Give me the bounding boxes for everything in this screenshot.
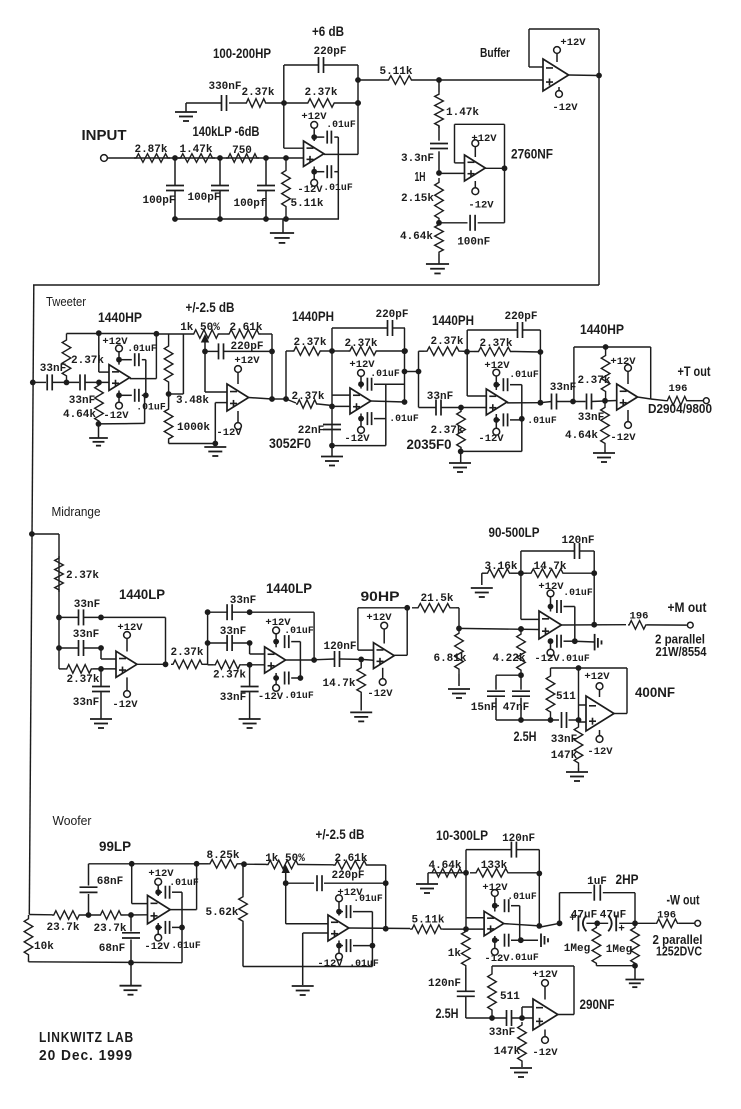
svg-text:2.37k: 2.37k	[291, 391, 324, 403]
svg-text:5.11k: 5.11k	[290, 198, 323, 210]
svg-text:100-200HP: 100-200HP	[213, 46, 271, 61]
svg-text:Tweeter: Tweeter	[46, 295, 86, 309]
svg-text:33nF: 33nF	[73, 629, 99, 641]
svg-text:220pF: 220pF	[230, 341, 263, 353]
svg-text:-12V: -12V	[216, 427, 242, 439]
svg-text:.01uF: .01uF	[507, 891, 537, 902]
svg-text:147k: 147k	[551, 750, 578, 762]
svg-text:90HP: 90HP	[361, 588, 400, 604]
svg-text:22nF: 22nF	[298, 425, 324, 437]
svg-text:4.64k: 4.64k	[428, 860, 461, 872]
svg-text:1252DVC: 1252DVC	[656, 945, 702, 959]
svg-text:-12V: -12V	[297, 184, 323, 196]
svg-text:10-300LP: 10-300LP	[436, 828, 488, 843]
svg-text:2.37k: 2.37k	[170, 647, 203, 659]
svg-text:2.37k: 2.37k	[293, 337, 326, 349]
svg-text:147k: 147k	[494, 1046, 521, 1058]
svg-text:.01uF: .01uF	[284, 690, 314, 701]
svg-text:3.16k: 3.16k	[484, 561, 517, 573]
svg-text:-12V: -12V	[552, 102, 578, 114]
svg-text:100pf: 100pf	[233, 198, 266, 210]
svg-text:2.37k: 2.37k	[577, 375, 610, 387]
svg-text:+T out: +T out	[678, 364, 711, 379]
svg-text:33nF: 33nF	[74, 599, 100, 611]
svg-text:-12V: -12V	[468, 200, 494, 212]
svg-text:14.7k: 14.7k	[322, 678, 355, 690]
svg-text:1440HP: 1440HP	[98, 309, 142, 325]
svg-text:LINKWITZ LAB: LINKWITZ LAB	[39, 1030, 134, 1046]
svg-text:20 Dec. 1999: 20 Dec. 1999	[39, 1048, 133, 1064]
svg-text:INPUT: INPUT	[82, 127, 127, 144]
svg-text:511: 511	[556, 691, 576, 703]
svg-text:.01uF: .01uF	[169, 877, 199, 888]
svg-text:2HP: 2HP	[616, 872, 639, 887]
svg-text:1k 50%: 1k 50%	[180, 322, 220, 334]
svg-text:+12V: +12V	[532, 969, 558, 981]
svg-text:+/-2.5 dB: +/-2.5 dB	[186, 300, 235, 315]
svg-text:Buffer: Buffer	[480, 45, 510, 60]
svg-text:.01uF: .01uF	[509, 952, 539, 963]
svg-text:33nF: 33nF	[489, 1027, 515, 1039]
svg-text:3.48k: 3.48k	[176, 395, 209, 407]
svg-text:1.47k: 1.47k	[446, 107, 479, 119]
svg-text:2.37k: 2.37k	[430, 336, 463, 348]
svg-text:.01uF: .01uF	[284, 625, 314, 636]
svg-text:2.37k: 2.37k	[66, 674, 99, 686]
svg-text:.01uF: .01uF	[171, 940, 201, 951]
svg-text:+: +	[618, 924, 625, 936]
svg-text:100pF: 100pF	[142, 195, 175, 207]
svg-text:.01uF: .01uF	[323, 182, 353, 193]
svg-text:5.11k: 5.11k	[411, 915, 444, 927]
svg-text:-12V: -12V	[144, 941, 170, 953]
svg-text:33nF: 33nF	[69, 395, 95, 407]
svg-text:1H: 1H	[415, 169, 426, 184]
svg-text:+12V: +12V	[102, 336, 128, 348]
svg-text:33nF: 33nF	[427, 391, 453, 403]
svg-text:33nF: 33nF	[550, 382, 576, 394]
svg-text:+12V: +12V	[482, 882, 508, 894]
svg-text:196: 196	[630, 611, 649, 623]
svg-text:2.37k: 2.37k	[344, 338, 377, 350]
svg-text:+6 dB: +6 dB	[312, 23, 344, 39]
svg-text:-12V: -12V	[587, 746, 613, 758]
svg-text:120nF: 120nF	[561, 535, 594, 547]
svg-text:220pF: 220pF	[504, 311, 537, 323]
svg-text:1k: 1k	[448, 948, 462, 960]
svg-text:100pF: 100pF	[187, 192, 220, 204]
svg-text:33nF: 33nF	[230, 595, 256, 607]
svg-text:1.47k: 1.47k	[179, 144, 212, 156]
svg-text:68nF: 68nF	[97, 876, 123, 888]
svg-text:23.7k: 23.7k	[46, 922, 79, 934]
svg-text:-12V: -12V	[103, 410, 129, 422]
svg-text:120nF: 120nF	[323, 641, 356, 653]
svg-text:-12V: -12V	[610, 432, 636, 444]
svg-text:-12V: -12V	[532, 1047, 558, 1059]
svg-text:5.62k: 5.62k	[205, 907, 238, 919]
svg-text:-12V: -12V	[534, 653, 560, 665]
svg-text:+M out: +M out	[668, 600, 707, 615]
svg-text:750: 750	[232, 145, 252, 157]
svg-text:99LP: 99LP	[99, 838, 131, 854]
svg-text:.01uF: .01uF	[353, 893, 383, 904]
svg-text:1uF: 1uF	[587, 876, 607, 888]
svg-text:3052F0: 3052F0	[269, 436, 311, 451]
svg-text:400NF: 400NF	[635, 685, 675, 700]
svg-text:23.7k: 23.7k	[93, 923, 126, 935]
svg-text:.01uF: .01uF	[389, 413, 419, 424]
svg-text:10k: 10k	[34, 941, 54, 953]
svg-text:1Meg: 1Meg	[564, 943, 590, 955]
svg-text:-12V: -12V	[112, 699, 138, 711]
svg-text:2.5H: 2.5H	[436, 1005, 459, 1021]
svg-text:-12V: -12V	[367, 688, 393, 700]
svg-text:+12V: +12V	[610, 356, 636, 368]
svg-text:.01uF: .01uF	[326, 119, 356, 130]
svg-text:+12V: +12V	[560, 37, 586, 49]
svg-text:6.81k: 6.81k	[433, 653, 466, 665]
svg-text:1440LP: 1440LP	[119, 586, 165, 602]
svg-text:+: +	[569, 913, 576, 925]
svg-text:8.25k: 8.25k	[206, 850, 239, 862]
svg-text:-12V: -12V	[317, 958, 343, 970]
svg-text:2.87k: 2.87k	[134, 144, 167, 156]
svg-text:Woofer: Woofer	[53, 814, 92, 828]
svg-text:33nF: 33nF	[220, 626, 246, 638]
svg-text:.01uF: .01uF	[527, 415, 557, 426]
svg-text:14.7k: 14.7k	[533, 561, 566, 573]
svg-text:2035F0: 2035F0	[407, 437, 452, 452]
svg-text:-12V: -12V	[258, 691, 284, 703]
svg-text:.01uF: .01uF	[349, 958, 379, 969]
svg-text:-W out: -W out	[667, 893, 700, 908]
svg-text:21.5k: 21.5k	[420, 593, 453, 605]
svg-text:.01uF: .01uF	[136, 402, 166, 413]
svg-text:100nF: 100nF	[457, 237, 490, 249]
svg-text:120nF: 120nF	[428, 978, 461, 990]
svg-text:4.64k: 4.64k	[565, 430, 598, 442]
svg-text:+12V: +12V	[538, 581, 564, 593]
svg-text:-12V: -12V	[484, 953, 510, 965]
svg-text:D2904/9800: D2904/9800	[648, 401, 712, 416]
svg-text:220pF: 220pF	[331, 870, 364, 882]
svg-text:+12V: +12V	[234, 355, 260, 367]
svg-text:1440LP: 1440LP	[266, 580, 312, 596]
svg-text:+12V: +12V	[366, 612, 392, 624]
svg-text:21W/8554: 21W/8554	[656, 645, 707, 659]
svg-text:.01uF: .01uF	[370, 368, 400, 379]
svg-text:330nF: 330nF	[208, 81, 241, 93]
svg-text:2.37k: 2.37k	[241, 87, 274, 99]
svg-text:33nF: 33nF	[220, 692, 246, 704]
svg-text:2.37k: 2.37k	[430, 425, 463, 437]
svg-text:68nF: 68nF	[99, 943, 125, 955]
svg-text:140kLP -6dB: 140kLP -6dB	[193, 124, 260, 139]
svg-text:1440PH: 1440PH	[432, 312, 474, 328]
svg-text:47nF: 47nF	[503, 702, 529, 714]
svg-text:.01uF: .01uF	[563, 587, 593, 598]
svg-text:1440PH: 1440PH	[292, 308, 334, 324]
svg-text:2760NF: 2760NF	[511, 147, 553, 162]
svg-text:196: 196	[657, 910, 676, 922]
svg-text:1440HP: 1440HP	[580, 321, 624, 337]
svg-text:Midrange: Midrange	[52, 505, 101, 519]
svg-text:-12V: -12V	[344, 433, 370, 445]
svg-text:3.3nF: 3.3nF	[401, 153, 434, 165]
svg-text:2.37k: 2.37k	[479, 338, 512, 350]
svg-text:4.64k: 4.64k	[400, 231, 433, 243]
svg-text:+12V: +12V	[301, 111, 327, 123]
svg-text:+12V: +12V	[471, 133, 497, 145]
svg-text:511: 511	[500, 991, 520, 1003]
svg-text:15nF: 15nF	[471, 702, 497, 714]
svg-text:220pF: 220pF	[313, 46, 346, 58]
svg-text:2.5H: 2.5H	[514, 728, 537, 744]
svg-text:5.11k: 5.11k	[379, 66, 412, 78]
svg-text:4.22k: 4.22k	[492, 653, 525, 665]
svg-text:2.37k: 2.37k	[66, 570, 99, 582]
svg-text:4.64k: 4.64k	[63, 409, 96, 421]
svg-text:+/-2.5 dB: +/-2.5 dB	[316, 827, 365, 842]
svg-text:33nF: 33nF	[73, 697, 99, 709]
svg-text:33nF: 33nF	[578, 412, 604, 424]
svg-text:120nF: 120nF	[502, 833, 535, 845]
svg-text:2.37k: 2.37k	[304, 87, 337, 99]
svg-text:+12V: +12V	[117, 622, 143, 634]
svg-text:220pF: 220pF	[375, 309, 408, 321]
svg-text:+12V: +12V	[584, 671, 610, 683]
svg-text:2.37k: 2.37k	[213, 670, 246, 682]
svg-text:.01uF: .01uF	[509, 369, 539, 380]
svg-text:47uF: 47uF	[600, 910, 626, 922]
svg-text:1000k: 1000k	[177, 422, 210, 434]
svg-text:90-500LP: 90-500LP	[489, 525, 540, 540]
svg-text:+12V: +12V	[484, 360, 510, 372]
svg-text:.01uF: .01uF	[127, 343, 157, 354]
svg-text:290NF: 290NF	[580, 997, 615, 1012]
svg-text:1Meg: 1Meg	[606, 944, 632, 956]
svg-text:2.15k: 2.15k	[401, 193, 434, 205]
svg-text:133k: 133k	[481, 860, 508, 872]
svg-text:-12V: -12V	[478, 433, 504, 445]
svg-text:196: 196	[669, 383, 688, 395]
svg-text:.01uF: .01uF	[560, 653, 590, 664]
